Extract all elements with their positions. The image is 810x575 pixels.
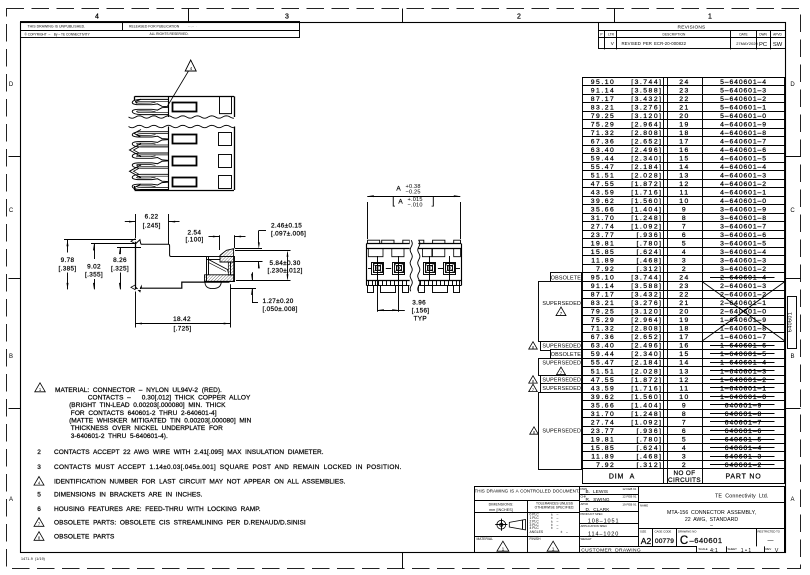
svg-text:00779: 00779 [655, 538, 674, 545]
top view: IDC fork contacts [132, 99, 168, 106]
svg-text:23.77: 23.77 [591, 428, 616, 435]
svg-text:FINISH: FINISH [530, 537, 542, 541]
svg-text:71.32: 71.32 [591, 326, 616, 333]
side view: left face edge marks [131, 239, 136, 244]
svg-text:27MAY2020: 27MAY2020 [736, 41, 758, 46]
svg-text:18: 18 [679, 326, 690, 333]
dim 5.84 [.230] [235, 250, 291, 252]
svg-text:[3.276]: [3.276] [631, 104, 662, 111]
svg-text:[3.276]: [3.276] [631, 300, 662, 307]
svg-text:[.230±.012]: [.230±.012] [268, 268, 303, 275]
svg-text:12 FEB 91: 12 FEB 91 [622, 487, 636, 491]
front view: feet [368, 286, 374, 293]
svg-text:3: 3 [682, 258, 687, 265]
svg-text:THIS DRAWING IS UNPUBLISHED.: THIS DRAWING IS UNPUBLISHED. [28, 25, 86, 29]
svg-text:4–640601–1: 4–640601–1 [720, 189, 767, 196]
svg-text:THICKNESS OVER NICKEL UNDERPLA: THICKNESS OVER NICKEL UNDERPLATE FOR [71, 425, 223, 432]
svg-text:20: 20 [679, 309, 690, 316]
svg-text:B: B [790, 354, 794, 360]
svg-text:PC: PC [759, 42, 767, 48]
svg-text:5: 5 [682, 241, 687, 248]
svg-text:3: 3 [285, 14, 289, 21]
svg-text:47.55: 47.55 [591, 181, 616, 188]
svg-text:LTR: LTR [608, 32, 614, 36]
svg-text:[.780]: [.780] [636, 241, 662, 248]
svg-text:9.02: 9.02 [87, 263, 101, 270]
svg-text:[3.588]: [3.588] [631, 283, 662, 290]
svg-text:[2.652]: [2.652] [631, 334, 662, 341]
svg-text:16: 16 [679, 147, 690, 154]
svg-text:±: ± [561, 530, 563, 534]
svg-text:23: 23 [679, 283, 690, 290]
svg-text:DIMENSIONS:: DIMENSIONS: [489, 502, 514, 506]
svg-text:4: 4 [682, 445, 687, 452]
svg-text:19.81: 19.81 [591, 241, 616, 248]
svg-text:8.26: 8.26 [113, 257, 127, 264]
svg-text:18.42: 18.42 [173, 316, 191, 323]
OBSOLETE label row 24ckt sec2 [551, 273, 582, 282]
dim 2.54 [.100] [219, 235, 221, 250]
svg-text:19: 19 [679, 121, 690, 128]
svg-text:OBSOLETE PARTS: OBSOLETE CIS S: OBSOLETE PARTS: OBSOLETE CIS STREAMLININ… [54, 520, 306, 527]
svg-text:24: 24 [679, 79, 690, 86]
callout triangle note 4 with leader [185, 60, 196, 71]
svg-text:[.156]: [.156] [412, 308, 430, 315]
svg-text:MTA-156 CONNECTOR ASSEMBLY,: MTA-156 CONNECTOR ASSEMBLY, [667, 510, 756, 516]
svg-text:[.936]: [.936] [636, 232, 662, 239]
svg-text:[3.120]: [3.120] [631, 113, 662, 120]
table grid [582, 77, 785, 79]
svg-text:14: 14 [679, 360, 690, 367]
svg-text:5–640601–1: 5–640601–1 [720, 104, 767, 111]
svg-text:14: 14 [679, 164, 690, 171]
svg-text:[3.432]: [3.432] [631, 292, 662, 299]
svg-text:51.51: 51.51 [591, 368, 616, 375]
SUPERSEDED label 11ckt [541, 384, 582, 393]
svg-text:[.355]: [.355] [85, 272, 103, 279]
zone ticks and labels [188, 9, 190, 23]
svg-text:APPLICATION SPEC: APPLICATION SPEC [581, 524, 608, 528]
title block [475, 487, 785, 553]
svg-text:3–640601–2: 3–640601–2 [720, 266, 767, 273]
svg-text:3: 3 [682, 453, 687, 460]
svg-text:2–640601–0: 2–640601–0 [720, 309, 767, 316]
svg-text:[.097±.006]: [.097±.006] [271, 230, 306, 237]
front view: dim 3.96 TYP [377, 274, 379, 312]
svg-text:OBSOLETE: OBSOLETE [551, 352, 582, 358]
svg-text:–: – [557, 526, 559, 530]
svg-text:4–640601–2: 4–640601–2 [720, 181, 767, 188]
svg-text:—: — [768, 539, 774, 545]
svg-text:13: 13 [679, 368, 690, 375]
svg-text:A: A [9, 497, 13, 503]
svg-text:[2.184]: [2.184] [631, 164, 662, 171]
svg-text:27.74: 27.74 [591, 224, 616, 231]
svg-text:5–640601–0: 5–640601–0 [720, 113, 767, 120]
front view: dim A [367, 202, 369, 239]
side view: body profile [135, 242, 137, 290]
svg-text:SIZE: SIZE [640, 529, 646, 533]
svg-text:DIM A: DIM A [609, 473, 635, 480]
svg-text:[1.560]: [1.560] [631, 394, 662, 401]
copyright / unpublished notice block [21, 22, 300, 38]
svg-text:75.29: 75.29 [591, 317, 616, 324]
dim 1.27 [.050] [246, 280, 256, 282]
svg-text:3–640601–8: 3–640601–8 [720, 215, 767, 222]
svg-text:A: A [398, 199, 403, 206]
svg-text:19: 19 [679, 317, 690, 324]
svg-text:2.54: 2.54 [187, 229, 201, 236]
svg-text:55.47: 55.47 [591, 360, 616, 367]
svg-text:[.245]: [.245] [143, 222, 161, 229]
svg-text:63.40: 63.40 [591, 343, 616, 350]
controlled document cell [475, 500, 580, 502]
svg-text:1–640601–4: 1–640601–4 [720, 360, 767, 367]
svg-text:[: [ [392, 195, 395, 207]
note 8 [34, 532, 44, 541]
svg-text:18: 18 [679, 130, 690, 137]
svg-text:[2.964]: [2.964] [631, 317, 662, 324]
svg-text:PRODUCT SPEC: PRODUCT SPEC [581, 512, 603, 516]
svg-text:[2.184]: [2.184] [631, 360, 662, 367]
svg-text:NAME: NAME [640, 504, 648, 508]
svg-text:7.92: 7.92 [596, 266, 615, 273]
side view: contact tail [205, 281, 221, 288]
svg-text:1–640601–8: 1–640601–8 [720, 326, 767, 333]
top view: housing chevrons between contacts [130, 144, 142, 157]
svg-text:[3.432]: [3.432] [631, 96, 662, 103]
svg-text:[.936]: [.936] [636, 428, 662, 435]
svg-text:31.70: 31.70 [591, 215, 616, 222]
svg-text:[.780]: [.780] [636, 436, 662, 443]
svg-text:[2.964]: [2.964] [631, 121, 662, 128]
svg-text:3.96: 3.96 [412, 300, 426, 307]
top view: wavy break lines [129, 116, 235, 118]
svg-text:TE Connectivity Ltd.: TE Connectivity Ltd. [715, 494, 768, 500]
svg-text:1–640601–1: 1–640601–1 [720, 385, 767, 392]
svg-text:9: 9 [682, 402, 687, 409]
svg-text:DIMENSIONS IN BRACKETS ARE IN: DIMENSIONS IN BRACKETS ARE IN INCHES. [54, 492, 203, 499]
svg-text:1 • 1: 1 • 1 [741, 548, 752, 554]
svg-text:23.77: 23.77 [591, 232, 616, 239]
svg-text:2–640601–1: 2–640601–1 [720, 300, 767, 307]
svg-text:7: 7 [682, 224, 687, 231]
svg-text:4: 4 [682, 249, 687, 256]
svg-text:2: 2 [517, 14, 521, 21]
svg-text:[1.248]: [1.248] [631, 411, 662, 418]
scale sheet rev strip [726, 546, 728, 552]
svg-text:–: – [566, 530, 568, 534]
svg-text:39.62: 39.62 [591, 198, 616, 205]
svg-text:[.385]: [.385] [58, 265, 76, 272]
svg-text:7.92: 7.92 [596, 462, 615, 469]
svg-text:640601–2: 640601–2 [725, 462, 762, 469]
note 1 (material) [35, 383, 46, 392]
svg-text:4–640601–4: 4–640601–4 [720, 164, 767, 171]
svg-text:[2.652]: [2.652] [631, 138, 662, 145]
svg-text:[1.560]: [1.560] [631, 198, 662, 205]
drawing name cell [639, 528, 786, 530]
svg-text:1–640601–6: 1–640601–6 [720, 343, 767, 350]
svg-text:19.81: 19.81 [591, 436, 616, 443]
svg-text:D: D [790, 82, 795, 88]
svg-text:[1.092]: [1.092] [631, 419, 662, 426]
svg-text:4–640601–5: 4–640601–5 [720, 155, 767, 162]
svg-text:6: 6 [37, 506, 41, 513]
svg-text:[1.404]: [1.404] [631, 402, 662, 409]
svg-text:114–1020: 114–1020 [588, 531, 619, 537]
svg-text:95.10: 95.10 [591, 79, 616, 86]
svg-text:87.17: 87.17 [591, 292, 616, 299]
svg-text:[3.588]: [3.588] [631, 87, 662, 94]
strikethrough lines on obsolete part numbers [710, 277, 775, 279]
svg-text:15.85: 15.85 [591, 445, 616, 452]
svg-text:[.325]: [.325] [111, 265, 129, 272]
svg-text:1–640601–3: 1–640601–3 [720, 368, 767, 375]
top view: right locking notches [220, 96, 232, 113]
svg-text:REV: REV [766, 547, 772, 551]
front view: body [367, 243, 462, 245]
top view: wire slots [173, 103, 197, 112]
top view: connector body [135, 96, 234, 98]
front view: horizontal centerline dashes [368, 268, 371, 270]
svg-text:(BRIGHT TIN-LEAD 0.00203[.0000: (BRIGHT TIN-LEAD 0.00203[.000080] MIN. T… [69, 402, 226, 409]
svg-text:SHEET: SHEET [728, 547, 738, 551]
front view: bottom strips [367, 280, 462, 282]
svg-text:5–640601–4: 5–640601–4 [720, 79, 767, 86]
svg-text:15: 15 [679, 155, 690, 162]
svg-text:[.468]: [.468] [636, 258, 662, 265]
top view: center divider wall [168, 96, 170, 117]
svg-text:4–640601–7: 4–640601–7 [720, 138, 767, 145]
svg-text:−0.25: −0.25 [406, 189, 421, 195]
vertical drawing number tab (640601) on right margin [788, 297, 797, 349]
svg-text:16: 16 [679, 343, 690, 350]
third angle projection symbol [497, 520, 506, 529]
svg-text:[1.716]: [1.716] [631, 385, 662, 392]
svg-text:CUSTOMER DRAWING: CUSTOMER DRAWING [581, 547, 641, 553]
svg-text:2.46±0.15: 2.46±0.15 [271, 223, 302, 230]
svg-text:SUPERSEDED: SUPERSEDED [542, 343, 581, 349]
svg-text:83.21: 83.21 [591, 300, 616, 307]
customer drawing cell [579, 546, 697, 548]
svg-text:640601–9: 640601–9 [725, 402, 762, 409]
svg-text:APVD: APVD [581, 502, 589, 506]
svg-text:95.10: 95.10 [591, 275, 616, 282]
svg-text:1–640601–5: 1–640601–5 [720, 351, 767, 358]
dimensions / tolerances cells [475, 512, 580, 514]
svg-text:[3.120]: [3.120] [631, 309, 662, 316]
svg-text:43.59: 43.59 [591, 189, 616, 196]
svg-text:3–640601–7: 3–640601–7 [720, 224, 767, 231]
svg-text:2: 2 [682, 266, 687, 273]
svg-text:3–640601–9: 3–640601–9 [720, 207, 767, 214]
svg-text:640601: 640601 [788, 312, 794, 332]
svg-text:7: 7 [682, 419, 687, 426]
svg-text:CONTACTS MUST ACCEPT 1.14±0.03: CONTACTS MUST ACCEPT 1.14±0.03[.045±.001… [54, 464, 402, 471]
svg-text:[.100]: [.100] [186, 237, 204, 244]
svg-text:59.44: 59.44 [591, 351, 616, 358]
svg-text:ALL RIGHTS RESERVED.: ALL RIGHTS RESERVED. [150, 32, 189, 36]
svg-text:55.47: 55.47 [591, 164, 616, 171]
name/date cells [579, 494, 638, 496]
svg-text:MATERIAL: MATERIAL [477, 537, 494, 541]
svg-text:–.,– .: –.,– . [188, 24, 197, 28]
svg-text:75.29: 75.29 [591, 121, 616, 128]
svg-text:59.44: 59.44 [591, 155, 616, 162]
svg-text:15: 15 [679, 351, 690, 358]
dim 9.78 [.385] [64, 239, 136, 241]
svg-text:79.25: 79.25 [591, 309, 616, 316]
svg-text:640601–6: 640601–6 [725, 428, 762, 435]
svg-text:10: 10 [679, 394, 690, 401]
svg-text:D. CLARK: D. CLARK [586, 507, 611, 512]
svg-text:2–640601–4: 2–640601–4 [720, 275, 767, 282]
svg-text:23: 23 [679, 87, 690, 94]
svg-text:HOUSING FEATURES ARE: FEED-THR: HOUSING FEATURES ARE: FEED-THRU WITH LOC… [54, 506, 261, 513]
svg-text:43.59: 43.59 [591, 385, 616, 392]
svg-text:5: 5 [37, 492, 41, 499]
svg-text:SUPERSEDED: SUPERSEDED [542, 386, 581, 392]
dim 8.26 [.325] [117, 247, 141, 249]
svg-text:B. LEWIS: B. LEWIS [586, 489, 609, 494]
front view: vertical break waves [410, 238, 419, 293]
dim 18.42 [.725] [135, 292, 137, 328]
svg-text:IDENTIFICATION NUMBER FOR LAST: IDENTIFICATION NUMBER FOR LAST CIRCUIT M… [54, 479, 346, 486]
svg-text:83.21: 83.21 [591, 104, 616, 111]
svg-text:71.32: 71.32 [591, 130, 616, 137]
svg-text:11: 11 [679, 385, 689, 392]
svg-text:3–640601–6: 3–640601–6 [720, 232, 767, 239]
svg-text:4–640601–6: 4–640601–6 [720, 147, 767, 154]
note 4 [34, 477, 44, 486]
svg-text:2–640601–2: 2–640601–2 [720, 292, 767, 299]
svg-text:[1.404]: [1.404] [631, 207, 662, 214]
svg-text:±: ± [551, 526, 553, 530]
SUPERSEDED group label 10-2ckt [539, 393, 582, 470]
svg-text:REVISIONS: REVISIONS [678, 25, 706, 31]
svg-text:6: 6 [682, 428, 687, 435]
svg-text:OBSOLETE: OBSOLETE [551, 275, 582, 281]
svg-text:[1.248]: [1.248] [631, 215, 662, 222]
svg-text:2–640601–3: 2–640601–3 [720, 283, 767, 290]
svg-text:640601–4: 640601–4 [725, 445, 762, 452]
svg-text:[2.028]: [2.028] [631, 172, 662, 179]
svg-text:6.22: 6.22 [145, 213, 159, 220]
size / cage / drawing number strip [652, 529, 654, 547]
svg-text:R. SWING: R. SWING [586, 497, 610, 502]
svg-text:REVISED PER ECR-20-000822: REVISED PER ECR-20-000822 [622, 41, 687, 46]
svg-text:4:1: 4:1 [710, 548, 718, 554]
svg-text:[3.744]: [3.744] [631, 275, 662, 282]
svg-text:1: 1 [708, 14, 712, 21]
svg-text:31.70: 31.70 [591, 411, 616, 418]
front view: contact squares [372, 263, 384, 275]
svg-text:12: 12 [679, 181, 690, 188]
svg-text:DWN: DWN [759, 32, 767, 36]
svg-text:[1.872]: [1.872] [631, 181, 662, 188]
big X over superseded part number group [702, 282, 785, 342]
side view: contact (hatched) [220, 249, 234, 262]
svg-text:SW: SW [773, 42, 783, 48]
svg-text:12 FEB 91: 12 FEB 91 [622, 495, 636, 499]
svg-text:CONTACTS ACCEPT 22 AWG WIRE WI: CONTACTS ACCEPT 22 AWG WIRE WITH 2.41[.0… [54, 449, 324, 456]
svg-text:[2.340]: [2.340] [631, 351, 662, 358]
svg-text:THIS DRAWING IS A CONTROLLED D: THIS DRAWING IS A CONTROLLED DOCUMENT. [475, 488, 580, 493]
svg-text:A2: A2 [641, 536, 652, 546]
svg-text:3–640601–5: 3–640601–5 [720, 241, 767, 248]
SUPERSEDED label 12ckt [541, 376, 582, 385]
svg-text:FOR CONTACTS 640601-2 THRU 2-6: FOR CONTACTS 640601-2 THRU 2-640601-4] [71, 410, 217, 417]
svg-text:CAGE CODE: CAGE CODE [655, 529, 672, 533]
svg-text:[2.496]: [2.496] [631, 147, 662, 154]
svg-text:87.17: 87.17 [591, 96, 616, 103]
svg-text:SUPERSEDED: SUPERSEDED [542, 377, 581, 383]
svg-text:© COPYRIGHT – By – TE CONN: © COPYRIGHT – By – TE CONNECTIVITY [25, 32, 91, 36]
front view: key slots row [368, 249, 383, 257]
svg-text:–640601: –640601 [690, 536, 723, 545]
note 7 [34, 518, 44, 527]
svg-text:mm [INCHES]: mm [INCHES] [489, 508, 513, 512]
svg-text:24: 24 [679, 275, 690, 282]
svg-text:4–640601–3: 4–640601–3 [720, 172, 767, 179]
svg-text:A: A [790, 497, 794, 503]
svg-text:[.050±.008]: [.050±.008] [263, 306, 298, 313]
svg-text:RESTRICTED TO: RESTRICTED TO [758, 529, 781, 533]
svg-text:B: B [9, 354, 13, 360]
svg-text:[3.744]: [3.744] [631, 79, 662, 86]
svg-text:3–640601–3: 3–640601–3 [720, 258, 767, 265]
svg-text:4–640601–9: 4–640601–9 [720, 121, 767, 128]
TE Connectivity cell [638, 487, 640, 547]
svg-text:27.74: 27.74 [591, 419, 616, 426]
svg-text:[.725]: [.725] [173, 326, 191, 333]
OBSOLETE label 15ckt [551, 350, 582, 359]
svg-text:15.85: 15.85 [591, 249, 616, 256]
svg-text:DESCRIPTION: DESCRIPTION [663, 32, 686, 36]
svg-text:OBSOLETE PARTS: OBSOLETE PARTS [54, 534, 115, 541]
SUPERSEDED group label rows 23-17 [539, 282, 582, 342]
svg-text:67.36: 67.36 [591, 334, 616, 341]
svg-text:[.312]: [.312] [636, 462, 662, 469]
svg-text:OTHERWISE SPECIFIED:: OTHERWISE SPECIFIED: [535, 505, 575, 509]
svg-text:21: 21 [679, 104, 690, 111]
svg-text:47.55: 47.55 [591, 377, 616, 384]
svg-text:17: 17 [679, 334, 690, 341]
svg-text:4–640601–8: 4–640601–8 [720, 130, 767, 137]
svg-text:11.89: 11.89 [591, 453, 615, 460]
svg-text:[2.808]: [2.808] [631, 130, 662, 137]
svg-text:91.14: 91.14 [591, 283, 616, 290]
svg-text:1.27±0.20: 1.27±0.20 [263, 298, 294, 305]
revisions table [599, 23, 786, 49]
svg-text:2: 2 [37, 449, 41, 456]
svg-text:22: 22 [679, 96, 690, 103]
svg-text:2: 2 [682, 462, 687, 469]
svg-text:WEIGHT: WEIGHT [581, 537, 592, 541]
svg-text:C: C [9, 208, 14, 214]
svg-text:A: A [396, 185, 401, 192]
svg-text:91.14: 91.14 [591, 87, 616, 94]
svg-text:1–640601–7: 1–640601–7 [720, 334, 767, 341]
svg-text:[2.808]: [2.808] [631, 326, 662, 333]
svg-text:9: 9 [682, 207, 687, 214]
svg-text:3: 3 [37, 464, 41, 471]
svg-text:35.66: 35.66 [591, 207, 616, 214]
svg-text:8: 8 [682, 411, 687, 418]
svg-text:CIRCUITS: CIRCUITS [668, 477, 701, 484]
svg-text:19 FEB 91: 19 FEB 91 [622, 502, 636, 506]
